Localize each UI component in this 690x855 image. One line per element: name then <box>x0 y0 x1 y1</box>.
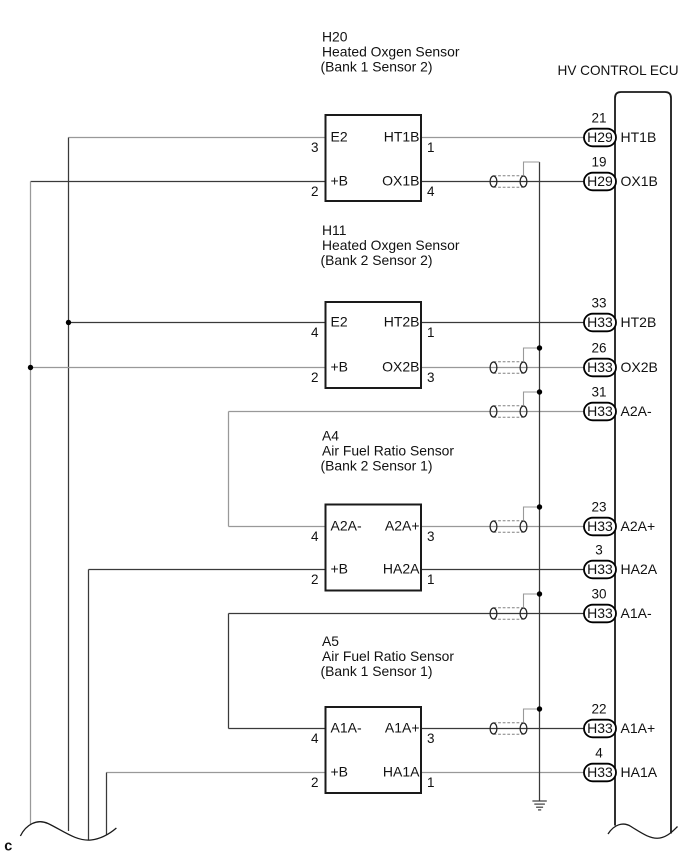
wire E2 H20 left run <box>69 137 326 139</box>
svg-text:OX2B: OX2B <box>382 359 419 375</box>
shield OX2B right ellipse <box>520 362 527 373</box>
svg-text:4: 4 <box>427 184 435 199</box>
svg-text:Air Fuel Ratio Sensor: Air Fuel Ratio Sensor <box>322 648 454 664</box>
connector pin H33-33 HT2B <box>584 296 656 332</box>
wire bus x89 vertical <box>88 570 90 840</box>
svg-text:HT1B: HT1B <box>384 129 420 145</box>
svg-text:A2A+: A2A+ <box>621 518 656 534</box>
shield A1A- left ellipse <box>490 608 497 619</box>
wire bus x31 vertical <box>30 182 32 825</box>
shield OX1B right ellipse <box>520 176 527 187</box>
svg-text:19: 19 <box>591 155 606 170</box>
svg-text:c: c <box>4 839 12 855</box>
junction E2 H11 at x68 bus <box>66 320 71 325</box>
shield A2A+ dashes <box>494 520 524 522</box>
svg-text:31: 31 <box>591 385 606 400</box>
shield OX2B drain to ground bus <box>524 348 540 362</box>
svg-text:4: 4 <box>311 529 319 544</box>
wire HA2A <box>421 569 584 571</box>
svg-text:3: 3 <box>595 543 603 558</box>
connector pin H33-30 A1A- <box>584 587 652 623</box>
svg-text:(Bank 2 Sensor 2): (Bank 2 Sensor 2) <box>321 252 433 268</box>
svg-text:H33: H33 <box>587 359 613 375</box>
svg-text:E2: E2 <box>331 129 348 145</box>
label H20 sensor description <box>321 29 460 75</box>
A4 pin numbers <box>311 529 435 587</box>
svg-text:A1A-: A1A- <box>621 605 652 621</box>
ground symbol <box>532 801 546 810</box>
svg-text:3: 3 <box>427 529 435 544</box>
ground bus vertical <box>539 162 541 801</box>
left harness break wave <box>20 822 116 840</box>
svg-text:4: 4 <box>311 325 319 340</box>
svg-text:3: 3 <box>311 140 319 155</box>
ECU connector body <box>615 92 671 834</box>
svg-text:Air Fuel Ratio Sensor: Air Fuel Ratio Sensor <box>322 443 454 459</box>
svg-text:OX1B: OX1B <box>382 173 419 189</box>
svg-text:2: 2 <box>311 775 319 790</box>
wire A1A- vertical x229 <box>228 614 230 729</box>
svg-text:A2A-: A2A- <box>621 403 652 419</box>
svg-text:H33: H33 <box>587 314 613 330</box>
shield OX2B dashes <box>494 361 524 363</box>
H20 pin numbers <box>311 140 435 199</box>
label H11 sensor description <box>321 222 460 268</box>
svg-text:3: 3 <box>427 370 435 385</box>
svg-text:23: 23 <box>591 500 606 515</box>
H11 pin labels <box>331 314 420 375</box>
svg-text:2: 2 <box>311 572 319 587</box>
svg-text:4: 4 <box>311 731 319 746</box>
svg-text:HA1A: HA1A <box>383 764 420 780</box>
svg-text:HA2A: HA2A <box>621 561 658 577</box>
svg-text:+B: +B <box>331 764 349 780</box>
svg-text:A2A-: A2A- <box>331 518 362 534</box>
wire +B A5 left run <box>107 772 326 774</box>
svg-text:HA2A: HA2A <box>383 561 420 577</box>
svg-text:HT1B: HT1B <box>621 129 657 145</box>
svg-text:+B: +B <box>331 359 349 375</box>
shield OX1B drain to ground bus <box>524 162 540 176</box>
svg-text:A1A+: A1A+ <box>621 720 656 736</box>
wire bus x68 vertical <box>68 138 70 832</box>
svg-text:H33: H33 <box>587 605 613 621</box>
connector pin H33-22 A1A+ <box>584 702 655 738</box>
svg-text:OX2B: OX2B <box>621 359 658 375</box>
svg-text:(Bank 1 Sensor 1): (Bank 1 Sensor 1) <box>321 663 433 679</box>
connector pin H29-21 HT1B <box>584 111 656 147</box>
junction A2A- drain junction <box>537 389 542 394</box>
svg-text:1: 1 <box>427 325 435 340</box>
junction +B H11 at x31 bus <box>28 365 33 370</box>
svg-text:H33: H33 <box>587 403 613 419</box>
wire HT2B <box>421 322 584 324</box>
svg-text:H33: H33 <box>587 561 613 577</box>
connector pin H33-23 A2A+ <box>584 500 655 536</box>
svg-text:HA1A: HA1A <box>621 764 658 780</box>
A4 pin labels <box>331 518 421 577</box>
wire +B A4 left run <box>89 569 326 571</box>
sensor H11 box <box>326 302 422 388</box>
H11 pin numbers <box>311 325 435 385</box>
A5 pin numbers <box>311 731 435 790</box>
label A5 sensor description <box>321 633 455 679</box>
svg-text:4: 4 <box>595 746 603 761</box>
svg-text:HT2B: HT2B <box>621 314 657 330</box>
shield A1A+ right ellipse <box>520 723 527 734</box>
ECU bottom wave <box>608 824 678 838</box>
svg-text:H20: H20 <box>322 29 348 45</box>
svg-text:H29: H29 <box>587 173 613 189</box>
svg-text:A1A-: A1A- <box>331 720 362 736</box>
svg-text:E2: E2 <box>331 314 348 330</box>
svg-text:26: 26 <box>591 341 606 356</box>
svg-text:A1A+: A1A+ <box>385 720 420 736</box>
sensor H20 box <box>326 115 422 201</box>
svg-text:21: 21 <box>591 111 606 126</box>
junction A1A+ drain junction <box>537 706 542 711</box>
wire A2A- vertical x229 <box>228 412 230 527</box>
svg-text:1: 1 <box>427 775 435 790</box>
wire OX2B <box>421 367 584 369</box>
shield A2A+ drain to ground bus <box>524 507 540 521</box>
shield A2A+ right ellipse <box>520 521 527 532</box>
shield OX2B left ellipse <box>490 362 497 373</box>
svg-text:A4: A4 <box>322 428 339 444</box>
shield A1A+ dashes <box>494 722 524 724</box>
svg-text:H33: H33 <box>587 720 613 736</box>
wire HA1A <box>421 772 584 774</box>
H20 pin labels <box>331 129 420 189</box>
svg-text:(Bank 2 Sensor 1): (Bank 2 Sensor 1) <box>321 458 433 474</box>
wire A1A- pin4 run <box>229 728 326 730</box>
svg-text:OX1B: OX1B <box>621 173 658 189</box>
svg-text:1: 1 <box>427 572 435 587</box>
svg-text:33: 33 <box>591 296 606 311</box>
shield A2A- drain to ground bus <box>524 392 540 406</box>
svg-text:22: 22 <box>591 702 606 717</box>
shield A2A- left ellipse <box>490 406 497 417</box>
shield A1A- drain to ground bus <box>524 594 540 608</box>
junction A2A+ drain junction <box>537 504 542 509</box>
svg-text:+B: +B <box>331 173 349 189</box>
svg-text:H33: H33 <box>587 764 613 780</box>
wire E2 H11 left run <box>69 322 326 324</box>
wire A2A- horizontal run <box>229 411 585 413</box>
shield A2A- right ellipse <box>520 406 527 417</box>
svg-text:HV CONTROL ECU: HV CONTROL ECU <box>558 63 679 78</box>
junction OX2B drain junction <box>537 345 542 350</box>
shield A1A+ drain to ground bus <box>524 709 540 723</box>
svg-text:(Bank 1 Sensor 2): (Bank 1 Sensor 2) <box>321 59 433 75</box>
wire +B H11 left run <box>31 367 326 369</box>
shield A1A- dashes <box>494 607 524 609</box>
shield A1A- right ellipse <box>520 608 527 619</box>
svg-text:H29: H29 <box>587 129 613 145</box>
sensor A5 box <box>326 707 422 793</box>
svg-text:A5: A5 <box>322 633 339 649</box>
connector pin H29-19 OX1B <box>584 155 658 191</box>
connector pin H33-4 HA1A <box>584 746 658 782</box>
connector pin H33-31 A2A- <box>584 385 652 421</box>
sensor A4 box <box>326 505 422 591</box>
junction A1A- drain junction <box>537 591 542 596</box>
connector pin H33-3 HA2A <box>584 543 658 579</box>
wire +B H20 left run <box>31 181 326 183</box>
wire A2A+ <box>421 526 584 528</box>
wire A1A- horizontal run <box>229 613 585 615</box>
svg-text:2: 2 <box>311 184 319 199</box>
svg-text:Heated Oxgen Sensor: Heated Oxgen Sensor <box>322 237 460 253</box>
svg-text:30: 30 <box>591 587 606 602</box>
svg-text:H11: H11 <box>322 222 347 238</box>
shield A1A+ left ellipse <box>490 723 497 734</box>
svg-text:Heated Oxgen Sensor: Heated Oxgen Sensor <box>322 44 460 60</box>
wire A2A- pin4 run <box>229 526 326 528</box>
wire HT1B <box>421 137 584 139</box>
shield A2A- dashes <box>494 405 524 407</box>
svg-text:2: 2 <box>311 370 319 385</box>
wire bus x107 vertical <box>106 773 108 836</box>
shield OX1B dashes <box>494 175 524 177</box>
svg-text:HT2B: HT2B <box>384 314 420 330</box>
svg-text:H33: H33 <box>587 518 613 534</box>
wire A1A+ <box>421 728 584 730</box>
svg-text:1: 1 <box>427 140 435 155</box>
A5 pin labels <box>331 720 421 780</box>
svg-text:A2A+: A2A+ <box>385 518 420 534</box>
label A4 sensor description <box>321 428 455 474</box>
svg-text:3: 3 <box>427 731 435 746</box>
svg-text:+B: +B <box>331 561 349 577</box>
shield OX1B left ellipse <box>490 176 497 187</box>
shield A2A+ left ellipse <box>490 521 497 532</box>
wire OX1B <box>421 181 584 183</box>
connector pin H33-26 OX2B <box>584 341 658 377</box>
